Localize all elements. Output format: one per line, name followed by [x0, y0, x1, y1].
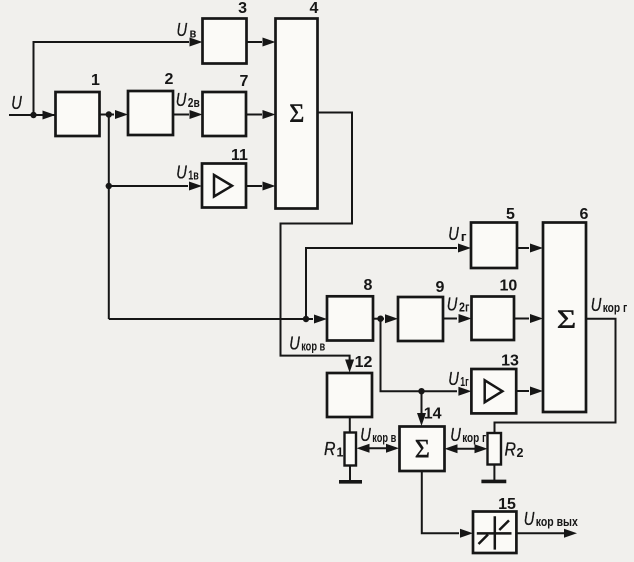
summer block 14	[400, 427, 445, 472]
wire block10 to block6	[514, 318, 529, 320]
svg-text:1г: 1г	[460, 375, 469, 389]
svg-text:U: U	[450, 424, 461, 445]
wire block13 to block6	[516, 390, 529, 392]
svg-text:в: в	[190, 27, 197, 41]
arrow into block10	[459, 314, 472, 323]
svg-text:3: 3	[238, 0, 247, 17]
label Uv	[177, 19, 197, 41]
node U1g branch to block14	[418, 388, 424, 394]
arrow block3 to block4	[263, 38, 276, 47]
wire block3 to block4	[247, 41, 263, 43]
resistor R1	[345, 433, 357, 466]
label 14	[424, 406, 442, 423]
label 5	[506, 206, 515, 223]
wire U1g to block13	[381, 319, 458, 392]
wire block1 to block2	[100, 114, 115, 116]
label Ukorv left of block14	[360, 424, 396, 445]
label 7	[240, 73, 249, 90]
wire input U	[9, 114, 55, 116]
svg-text:г: г	[461, 230, 467, 244]
summer block 4	[276, 19, 318, 209]
double arrow block14 to R2	[445, 444, 488, 453]
label 9	[436, 279, 445, 296]
arrow down into block12	[345, 360, 354, 373]
arrow block13 to block6	[530, 387, 543, 396]
svg-text:2: 2	[165, 71, 174, 88]
svg-text:U: U	[177, 19, 188, 40]
svg-text:2г: 2г	[459, 300, 469, 314]
block 9	[398, 297, 443, 341]
node Ug branch	[303, 316, 309, 322]
arrow into block5	[458, 244, 471, 253]
node after block1	[106, 111, 112, 117]
svg-text:U: U	[289, 333, 300, 354]
svg-text:14: 14	[424, 406, 442, 423]
arrow into block1	[43, 111, 56, 120]
svg-text:R: R	[324, 438, 336, 459]
label 3	[238, 0, 247, 17]
arrow down into block14	[417, 413, 426, 426]
svg-text:U: U	[591, 294, 602, 315]
label 1	[91, 72, 100, 89]
arrow block5 to block6	[530, 244, 543, 253]
block 15 limiter	[473, 512, 516, 554]
label Ug	[448, 223, 466, 244]
svg-text:U: U	[360, 424, 371, 445]
label 11	[231, 147, 248, 164]
arrow block11 to block4	[263, 182, 276, 191]
label Ukorv near block12	[289, 333, 325, 354]
wire R1 to ground	[349, 466, 351, 481]
label R2	[505, 439, 524, 461]
svg-text:U: U	[11, 92, 22, 113]
svg-text:R: R	[505, 439, 517, 460]
svg-text:U: U	[448, 368, 459, 389]
label 2	[165, 71, 174, 88]
arrow into block2	[115, 110, 128, 119]
wire block14 to block15	[422, 471, 459, 533]
svg-text:кор вых: кор вых	[536, 515, 578, 529]
svg-text:1: 1	[337, 446, 344, 460]
arrow into block3	[190, 38, 203, 47]
svg-text:U: U	[448, 223, 459, 244]
block 13 amplifier	[471, 369, 516, 413]
label U2v	[176, 89, 200, 110]
arrow block7 to block4	[263, 110, 276, 119]
wire block8 to block9	[373, 318, 384, 320]
wire block4 output to block12	[281, 113, 353, 361]
arrow into block11	[189, 182, 202, 191]
block 3	[203, 19, 247, 64]
arrow block10 to block6	[530, 314, 543, 323]
block 11 amplifier	[202, 164, 246, 208]
arrow into block9	[385, 314, 398, 323]
wire feed to block 8	[109, 318, 313, 320]
svg-text:4: 4	[310, 0, 319, 17]
block 7	[203, 92, 247, 136]
arrow into block7	[190, 110, 203, 119]
svg-text:кор в: кор в	[372, 431, 396, 445]
block 1	[56, 92, 100, 136]
svg-text:U: U	[176, 162, 187, 183]
svg-text:2в: 2в	[188, 96, 200, 110]
ground R2	[481, 480, 506, 484]
svg-text:U: U	[524, 508, 535, 529]
wire block11 to block4	[246, 185, 262, 187]
label 13	[501, 352, 519, 369]
node U1v branch	[106, 183, 112, 189]
svg-text:1в: 1в	[188, 169, 199, 183]
svg-text:Σ: Σ	[415, 435, 430, 464]
wire Ug to block5	[306, 248, 457, 319]
svg-text:кор г: кор г	[603, 301, 628, 315]
svg-text:Σ: Σ	[557, 305, 577, 334]
wire block2 to block7	[173, 114, 189, 116]
arrow into block8	[314, 315, 327, 324]
ground R1	[339, 480, 362, 484]
svg-text:Σ: Σ	[289, 99, 304, 128]
label 10	[500, 278, 518, 295]
block 8	[327, 296, 373, 340]
block 5	[471, 223, 517, 269]
resistor R2	[488, 433, 502, 465]
block 10	[472, 297, 515, 341]
wire block5 to block6	[517, 247, 529, 249]
wire block6 output feedback to R2	[495, 319, 616, 432]
label 12	[355, 354, 373, 371]
label R1	[324, 438, 344, 460]
label U1v	[176, 162, 199, 183]
label 6	[580, 206, 589, 223]
label U input	[11, 92, 22, 113]
svg-text:15: 15	[498, 496, 516, 513]
label Ukorg left of R2	[450, 424, 486, 445]
svg-text:10: 10	[500, 278, 518, 295]
wire R2 to ground	[493, 465, 495, 481]
label Ukorvyh output	[524, 508, 578, 529]
wire block9 to block10	[443, 318, 457, 320]
svg-text:5: 5	[506, 206, 515, 223]
svg-text:7: 7	[240, 73, 249, 90]
svg-text:U: U	[447, 293, 458, 314]
wire block12 to R1	[349, 417, 351, 433]
arrow output Ukorvyh	[564, 529, 577, 538]
node input junction	[30, 112, 36, 118]
arrow into block13	[458, 387, 471, 396]
block 2	[128, 91, 173, 135]
label 4	[310, 0, 319, 17]
label U2g	[447, 293, 470, 314]
wire down from block1 junction	[108, 115, 110, 320]
svg-text:12: 12	[355, 354, 373, 371]
wire U to block 3	[34, 42, 190, 115]
wire block15 output	[516, 532, 570, 534]
wire to block 11	[109, 185, 188, 187]
block 12	[327, 373, 372, 417]
svg-text:11: 11	[231, 147, 248, 164]
svg-text:кор г: кор г	[462, 431, 486, 445]
svg-text:2: 2	[517, 446, 524, 460]
label U1g	[448, 368, 469, 389]
double arrow R1 to block14	[357, 444, 400, 453]
svg-text:9: 9	[436, 279, 445, 296]
arrow into block15	[460, 529, 473, 538]
svg-text:кор в: кор в	[301, 340, 325, 354]
wire block7 to block4	[246, 114, 262, 116]
label Ukorg right of block6	[591, 294, 628, 315]
svg-text:6: 6	[580, 206, 589, 223]
label 15	[498, 496, 516, 513]
svg-text:13: 13	[501, 352, 519, 369]
label 8	[364, 277, 373, 294]
node after block8	[377, 316, 383, 322]
svg-text:8: 8	[364, 277, 373, 294]
summer block 6	[543, 223, 586, 413]
wire down to block14	[421, 391, 423, 413]
svg-text:1: 1	[91, 72, 100, 89]
svg-text:U: U	[176, 89, 187, 110]
